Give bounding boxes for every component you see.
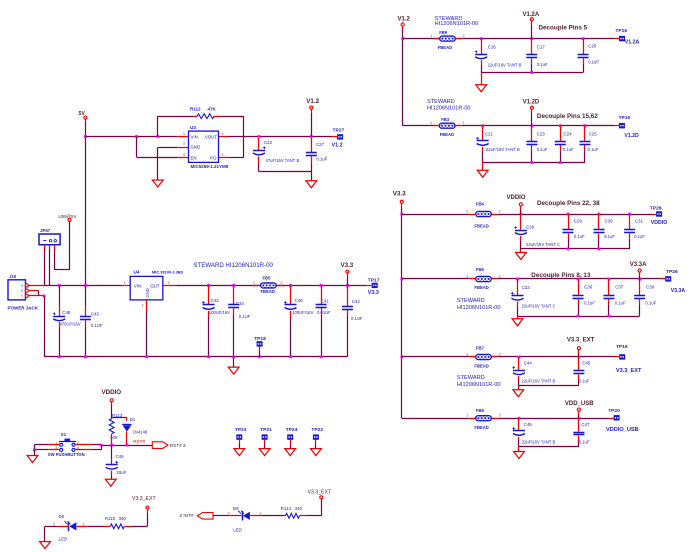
wire bus VDD_USB xyxy=(519,446,579,448)
ground V1.2D xyxy=(477,170,488,177)
node V1.2D circle xyxy=(530,106,533,109)
label C24 xyxy=(563,132,574,152)
junction J10 gnd xyxy=(43,295,46,298)
off-page connector RST# xyxy=(152,442,168,449)
resistor R114 symbol xyxy=(286,513,300,518)
svg-text:C38: C38 xyxy=(646,285,655,290)
svg-text:2: 2 xyxy=(228,512,230,516)
label Decouple Pins 8, 13 xyxy=(531,272,591,279)
label C48 xyxy=(60,310,81,327)
junction C21 xyxy=(481,124,484,127)
wire ground bus mid xyxy=(44,356,347,358)
label VDDIO_USB at TP20 xyxy=(606,427,639,433)
svg-text:1: 1 xyxy=(466,414,468,418)
capacitor C16 symbol xyxy=(475,51,488,59)
svg-text:2: 2 xyxy=(463,34,465,38)
svg-text:C25: C25 xyxy=(589,132,598,137)
op-amp U3 regulator MIC5259 xyxy=(189,125,229,169)
svg-text:47K: 47K xyxy=(208,106,217,111)
wire C43 bottom lead xyxy=(85,320,87,357)
svg-text:470UF/16V: 470UF/16V xyxy=(60,321,81,326)
svg-text:VDDIO_USB: VDDIO_USB xyxy=(606,427,639,433)
wire V1.2D down xyxy=(531,109,533,125)
wire C20 bottom lead xyxy=(583,58,585,72)
svg-text:0.1uF: 0.1uF xyxy=(615,300,626,305)
label TP19 xyxy=(616,344,628,350)
junction bus C17 xyxy=(530,71,533,74)
svg-text:V1.2: V1.2 xyxy=(332,143,343,149)
svg-text:C45: C45 xyxy=(582,361,591,366)
wire C47 top lead xyxy=(578,418,580,432)
node V3.3A circle xyxy=(638,269,641,272)
svg-text:0.01UF: 0.01UF xyxy=(317,310,331,315)
svg-text:2: 2 xyxy=(21,289,23,293)
svg-text:0.1uF: 0.1uF xyxy=(646,300,657,305)
test point TP23 xyxy=(236,434,242,439)
test point TP28 xyxy=(656,211,662,216)
wire C46 bottom lead xyxy=(518,437,520,447)
label C45 xyxy=(579,361,591,384)
wire V3.3A down xyxy=(639,272,641,279)
ground TP24 xyxy=(285,449,296,456)
svg-text:C42: C42 xyxy=(352,299,361,304)
wire C44 top lead xyxy=(518,357,520,370)
pin numbers FB3 xyxy=(430,121,464,125)
svg-text:FBEAD: FBEAD xyxy=(474,425,488,430)
svg-text:TP21: TP21 xyxy=(260,427,272,433)
wire C24 bottom lead xyxy=(560,145,562,163)
switch S1 SW PUSHBUTTON xyxy=(48,432,85,457)
wire C21 bottom lead xyxy=(482,147,484,163)
test point TP15 xyxy=(619,123,625,128)
wire bus to ground row2 xyxy=(482,163,484,171)
ferrite bead FB7 symbol xyxy=(475,354,492,360)
label C25 xyxy=(588,132,599,152)
junction C36A xyxy=(577,278,580,281)
resistor R113 symbol xyxy=(109,419,114,434)
label TP15 xyxy=(619,115,631,121)
wire C41 top lead xyxy=(321,285,323,304)
svg-text:2: 2 xyxy=(281,281,283,285)
junction bus C30 xyxy=(598,248,601,251)
svg-text:V3.3_EXT: V3.3_EXT xyxy=(132,496,156,502)
junction D1 RST xyxy=(126,444,129,447)
svg-text:0.1UF: 0.1UF xyxy=(351,316,363,321)
svg-text:FB7: FB7 xyxy=(476,345,485,350)
wire EN branch xyxy=(137,137,189,158)
svg-text:22uF/16V TANT B: 22uF/16V TANT B xyxy=(488,62,522,67)
wire C22 top lead xyxy=(258,138,260,150)
svg-text:U3: U3 xyxy=(190,125,196,130)
ferrite bead FB4 symbol xyxy=(475,211,492,217)
svg-text:V1.2: V1.2 xyxy=(306,98,319,105)
wire C27 bottom lead xyxy=(311,156,313,171)
ground TP23 xyxy=(234,449,245,456)
svg-text:C16: C16 xyxy=(488,44,497,49)
svg-text:V3.3_EXT: V3.3_EXT xyxy=(616,368,642,374)
wire JP47 pin2 to rail xyxy=(49,245,51,286)
svg-text:C31: C31 xyxy=(635,218,644,223)
svg-text:MIC 39100-3.3BS: MIC 39100-3.3BS xyxy=(152,269,184,274)
junction 5V/U3 rail xyxy=(84,135,87,138)
capacitor C49 symbol xyxy=(106,461,119,469)
power net V3.3A xyxy=(630,262,647,268)
test point TP19 xyxy=(619,354,625,359)
svg-text:HI1206N101R-00: HI1206N101R-00 xyxy=(435,21,479,27)
wire C29 bottom lead xyxy=(568,233,570,249)
svg-text:R115: R115 xyxy=(105,516,116,521)
svg-text:0.1uF: 0.1uF xyxy=(588,147,599,152)
wire C32 top lead xyxy=(208,285,210,304)
svg-text:0.1UF: 0.1UF xyxy=(239,314,251,319)
node VDD_USB circle xyxy=(577,408,580,411)
label TP27 xyxy=(333,127,345,133)
node J10 pin2 xyxy=(25,289,28,292)
wire C22 bottom lead xyxy=(258,156,260,171)
power net V1.2 top-left xyxy=(306,98,319,105)
wire 5V vertical xyxy=(85,119,87,285)
capacitor C25 symbol xyxy=(580,142,591,145)
label R113 xyxy=(110,413,123,440)
svg-text:1: 1 xyxy=(183,132,185,136)
test point TP27 xyxy=(337,134,343,139)
wire VDDIO to D1 xyxy=(112,417,127,420)
wire VOUT to V1.2 xyxy=(219,136,337,138)
label C37 xyxy=(615,285,626,306)
label FB4 xyxy=(474,201,488,228)
svg-text:FBEAD: FBEAD xyxy=(474,364,488,369)
label V3.3_EXT at TP19 xyxy=(616,368,642,374)
wire R115 to D8 xyxy=(77,526,111,528)
svg-text:V1.2: V1.2 xyxy=(398,16,411,22)
wire C37 bottom lead xyxy=(608,299,610,316)
wire V1.2 spine xyxy=(402,26,404,126)
svg-text:V3.3: V3.3 xyxy=(368,290,379,296)
svg-text:C47: C47 xyxy=(581,422,590,427)
label C41 xyxy=(317,298,331,315)
wire to TP17 xyxy=(347,285,371,287)
wire bus V3.3_EXT xyxy=(519,385,579,387)
capacitor C30 symbol xyxy=(594,230,605,233)
junction V3.3_EXT xyxy=(578,356,581,359)
svg-text:0.1uF: 0.1uF xyxy=(537,62,548,67)
wire S1 right side xyxy=(75,445,102,450)
wire rail V1.2D xyxy=(403,125,619,127)
connector J10 power jack xyxy=(8,274,39,310)
label C49 xyxy=(116,454,127,475)
svg-text:PG: PG xyxy=(210,155,217,160)
svg-text:GND: GND xyxy=(191,145,201,150)
svg-text:EN: EN xyxy=(191,155,197,160)
label STEWARD row2 xyxy=(427,99,471,112)
label C23 xyxy=(537,132,548,152)
node V3.3_EXT circle xyxy=(577,347,580,350)
svg-text:C27: C27 xyxy=(316,142,325,147)
svg-text:2: 2 xyxy=(499,275,501,279)
wire VDDIO down xyxy=(111,402,113,419)
label C38 xyxy=(646,285,657,306)
test point TP20 xyxy=(614,415,620,420)
svg-text:1: 1 xyxy=(430,34,432,38)
label TP16 xyxy=(615,28,627,34)
svg-text:D1: D1 xyxy=(130,417,136,422)
wire bus V1.2A xyxy=(481,72,583,74)
power net V3.3_EXT xyxy=(567,338,595,344)
wire C32 bottom lead xyxy=(208,311,210,357)
svg-text:C46: C46 xyxy=(524,422,533,427)
svg-text:100UF/16V: 100UF/16V xyxy=(292,310,313,315)
junction V1.2D xyxy=(531,124,534,127)
power net U59@5V xyxy=(59,214,77,219)
wire V3.3 down xyxy=(347,273,349,285)
node U59@5V circle xyxy=(68,218,71,221)
ground C49 xyxy=(105,479,116,486)
svg-text:47uF/16V TANT B: 47uF/16V TANT B xyxy=(266,158,300,163)
label C42 xyxy=(351,299,363,321)
pin numbers FB5 xyxy=(253,281,283,285)
label C32 xyxy=(209,298,230,315)
wire R113 bottom xyxy=(111,434,113,445)
wire C23 top lead xyxy=(531,126,533,141)
junction C22 xyxy=(258,135,261,138)
diode D1 1N4148 xyxy=(122,417,148,434)
label C46 xyxy=(522,422,556,445)
svg-text:C48: C48 xyxy=(62,310,71,315)
wire C33 top lead xyxy=(517,279,519,295)
wire bus V3.3A xyxy=(518,316,640,318)
svg-text:22uF/16V TANT B: 22uF/16V TANT B xyxy=(522,440,556,445)
svg-text:R112: R112 xyxy=(190,106,201,111)
svg-text:SW PUSHBUTTON: SW PUSHBUTTON xyxy=(48,452,85,457)
junction V3.3A xyxy=(638,278,641,281)
svg-text:V1.2D: V1.2D xyxy=(624,133,639,139)
label TP26 xyxy=(666,269,678,275)
svg-text:FB8: FB8 xyxy=(476,408,485,413)
capacitor C43 symbol xyxy=(80,317,91,320)
label V1.2 at TP27 xyxy=(332,143,343,149)
svg-text:VDDIO: VDDIO xyxy=(651,220,667,226)
wire FB7 stubs xyxy=(469,356,498,358)
svg-text:1: 1 xyxy=(466,210,468,214)
svg-text:TP19: TP19 xyxy=(616,344,628,350)
junction V3.3 row5 xyxy=(400,356,403,359)
wire bus to ground xyxy=(233,357,235,367)
svg-text:C33: C33 xyxy=(522,285,531,290)
label C34 xyxy=(236,301,251,319)
wire gnd bus U3 outputs xyxy=(259,172,312,181)
svg-text:3: 3 xyxy=(168,281,170,285)
capacitor C45 symbol xyxy=(573,371,584,374)
wire C44 bottom lead xyxy=(518,376,520,385)
junction bus C24 xyxy=(559,161,562,164)
svg-text:0.1uF: 0.1uF xyxy=(563,147,574,152)
svg-text:VOUT: VOUT xyxy=(205,135,218,140)
svg-text:Decouple Pins 5: Decouple Pins 5 xyxy=(539,25,588,32)
ground D8 xyxy=(40,542,51,549)
ferrite bead FB8 symbol xyxy=(475,415,492,421)
wire C20 top lead xyxy=(583,39,585,55)
svg-text:HI1206N101R-00: HI1206N101R-00 xyxy=(457,305,501,311)
svg-text:TP20: TP20 xyxy=(608,408,620,414)
svg-text:V1.2D: V1.2D xyxy=(523,100,540,106)
pin numbers FB4 xyxy=(466,210,500,214)
wire bus to ground row5 xyxy=(518,385,520,389)
node VDDIO circle xyxy=(519,203,522,206)
svg-text:C30: C30 xyxy=(605,218,614,223)
junction 5V/C43 xyxy=(84,284,87,287)
junction bus U4 gnd xyxy=(145,355,148,358)
wire C24 top lead xyxy=(560,126,562,141)
capacitor C34 symbol xyxy=(228,305,239,308)
capacitor C22 xyxy=(264,140,299,163)
label R114 xyxy=(281,506,303,511)
ground V1.2 caps xyxy=(306,181,317,188)
power net V3.3_EXT left xyxy=(132,496,156,502)
wire V3.3_EXT down xyxy=(578,350,580,357)
svg-text:1: 1 xyxy=(124,281,126,285)
capacitor C48 symbol xyxy=(53,313,65,321)
power net VDDIO xyxy=(102,389,122,396)
wire C49 top lead xyxy=(111,445,113,464)
power net VDDIO right xyxy=(507,195,526,201)
capacitor C33 symbol xyxy=(511,292,524,300)
label FB3 xyxy=(440,117,454,137)
svg-text:4: 4 xyxy=(222,153,224,157)
label C44 xyxy=(522,360,556,383)
ground TP21 xyxy=(259,449,270,456)
svg-text:V3.3: V3.3 xyxy=(393,191,406,198)
wire rail VDD_USB xyxy=(402,418,614,420)
wire C21 top lead xyxy=(482,126,484,141)
ground S1 xyxy=(27,456,38,463)
pin numbers FB6 xyxy=(466,275,500,279)
svg-text:C43: C43 xyxy=(91,311,100,316)
svg-text:R113: R113 xyxy=(112,413,123,418)
test point TP22 label xyxy=(311,427,323,433)
junction bus C36A xyxy=(577,315,580,318)
svg-text:2: 2 xyxy=(499,210,501,214)
wire TP23 to ground xyxy=(239,440,241,449)
svg-text:2: 2 xyxy=(462,121,464,125)
wire D8 to ground xyxy=(45,526,69,541)
pin numbers U4 xyxy=(124,281,170,308)
node VDDIO circle xyxy=(110,399,113,402)
junction C36 xyxy=(289,284,292,287)
label V1.2A at TP16 xyxy=(625,40,640,46)
svg-text:TP26: TP26 xyxy=(666,269,678,275)
label STEWARD HI1206N101R-00 mid xyxy=(194,262,274,269)
wire TP22 to ground xyxy=(315,440,317,449)
label RST# 2 xyxy=(170,443,186,448)
svg-text:V3.3_EXT: V3.3_EXT xyxy=(567,338,595,344)
node J10 pin1 xyxy=(25,294,28,297)
capacitor C37 symbol xyxy=(603,296,614,299)
wire J10 pin3 to rail xyxy=(28,285,44,287)
node 5V circle xyxy=(84,116,87,119)
svg-text:0.1uF: 0.1uF xyxy=(537,147,548,152)
junction C24 xyxy=(559,124,562,127)
capacitor C17 symbol xyxy=(526,55,537,58)
wire C31 bottom lead xyxy=(629,233,631,249)
svg-text:RST# 2: RST# 2 xyxy=(170,443,186,448)
jumper JP47 xyxy=(39,228,60,245)
label D9 xyxy=(233,506,242,532)
capacitor C23 symbol xyxy=(526,142,537,145)
label C28 xyxy=(526,225,560,248)
regulator U4 MIC39100 xyxy=(130,269,163,300)
wire C48 bottom lead xyxy=(59,322,61,357)
capacitor C47 symbol xyxy=(573,433,584,435)
wire C28 top lead xyxy=(520,214,522,230)
wire C36 bottom lead xyxy=(578,299,580,316)
wire C47 bottom lead xyxy=(578,436,580,447)
junction C32 xyxy=(207,284,210,287)
svg-text:FBEAD: FBEAD xyxy=(440,132,454,137)
wire C43 top lead xyxy=(85,285,87,316)
svg-text:FBEAD: FBEAD xyxy=(474,223,488,228)
junction C48 xyxy=(58,284,61,287)
junction C25 xyxy=(584,124,587,127)
svg-text:TP28: TP28 xyxy=(650,206,662,212)
wire JP47 pin1 to rail xyxy=(44,245,46,286)
svg-text:FB6: FB6 xyxy=(476,267,485,272)
resistor R112 xyxy=(190,106,217,118)
capacitor C36 symbol xyxy=(573,296,584,299)
wire FB6 stubs xyxy=(469,278,498,280)
svg-text:VDDIO: VDDIO xyxy=(507,195,526,201)
svg-text:OUT: OUT xyxy=(150,283,160,288)
pin numbers D9 xyxy=(228,512,261,516)
svg-text:LED: LED xyxy=(59,537,68,542)
capacitor C46 symbol xyxy=(513,427,526,435)
svg-text:0.1UF: 0.1UF xyxy=(91,323,103,328)
junction bus C29 xyxy=(567,248,570,251)
svg-text:VDD_USB: VDD_USB xyxy=(565,401,594,407)
junction C16 xyxy=(480,37,483,40)
svg-text:VIN: VIN xyxy=(191,135,198,140)
wire C42 top lead xyxy=(347,285,349,306)
svg-text:1: 1 xyxy=(466,353,468,357)
svg-text:C24: C24 xyxy=(564,132,573,137)
junction C31 xyxy=(628,213,631,216)
label C36 mid xyxy=(292,298,313,315)
svg-text:2: 2 xyxy=(499,414,501,418)
svg-text:0.1uF: 0.1uF xyxy=(634,234,645,239)
wire FB8 stubs xyxy=(469,418,498,420)
power net V3.3 mid xyxy=(341,262,354,269)
label C21 xyxy=(485,132,520,152)
svg-text:1: 1 xyxy=(253,281,255,285)
power net V1.2 right spine xyxy=(398,16,411,22)
junction V3.3 xyxy=(346,284,349,287)
svg-text:V3.3A: V3.3A xyxy=(630,262,647,268)
ground VDD_USB xyxy=(514,452,525,459)
wire C30 top lead xyxy=(598,214,600,230)
wire C45 bottom lead xyxy=(578,375,580,386)
wire JP47 pin3 to U59@5V xyxy=(55,222,70,270)
junction bus C36 xyxy=(289,355,292,358)
svg-text:TP15: TP15 xyxy=(619,115,631,121)
label C17 xyxy=(537,44,548,67)
svg-text:C37: C37 xyxy=(615,285,624,290)
wire C36 bottom lead xyxy=(290,311,292,357)
svg-text:Decouple Pins 8, 13: Decouple Pins 8, 13 xyxy=(531,272,591,279)
svg-text:C28: C28 xyxy=(526,225,535,230)
wire INT# to D9 xyxy=(213,515,242,517)
junction C33 xyxy=(516,278,519,281)
svg-text:STEWARD: STEWARD xyxy=(427,99,455,105)
junction S1 gnd xyxy=(33,449,36,452)
